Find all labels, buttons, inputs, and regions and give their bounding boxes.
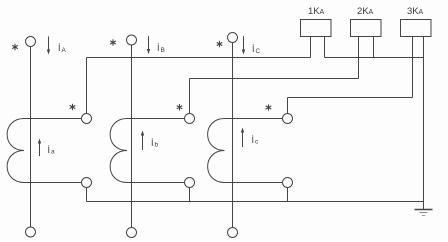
ammeter 1KA bbox=[301, 20, 332, 37]
svg-text:1K: 1K bbox=[308, 6, 320, 17]
label Ia bbox=[48, 145, 56, 156]
CT A secondary top terminal bbox=[82, 114, 92, 124]
CT B primary bottom terminal bbox=[127, 228, 137, 238]
wire: phase A primary conductor bbox=[30, 47, 32, 228]
wire: bus from CT C to 3KA bbox=[288, 97, 413, 99]
CT C secondary bottom terminal bbox=[283, 178, 293, 188]
svg-text:B: B bbox=[161, 47, 165, 54]
svg-text:3K: 3K bbox=[407, 6, 419, 17]
wire: CT C secondary top terminal riser bbox=[287, 98, 289, 114]
label IB bbox=[157, 43, 165, 54]
svg-text:b: b bbox=[155, 142, 159, 149]
wire: common return bus bbox=[325, 57, 424, 59]
CT C primary bottom terminal bbox=[228, 228, 238, 238]
CT B secondary top terminal bbox=[185, 114, 195, 124]
svg-text:İ: İ bbox=[252, 135, 255, 145]
CT C secondary winding bbox=[208, 119, 283, 183]
current arrow Ic bbox=[241, 128, 244, 148]
label 2KA bbox=[357, 6, 374, 17]
node: ground junction bbox=[423, 202, 425, 210]
polarity mark CT B secondary bbox=[177, 104, 183, 110]
wire: CT C secondary bottom drop bbox=[287, 188, 289, 202]
wire: 2KA right lead down to common bus bbox=[373, 37, 375, 58]
svg-text:a: a bbox=[51, 149, 55, 156]
ammeter 3KA bbox=[401, 20, 432, 37]
CT A secondary winding bbox=[7, 119, 81, 183]
polarity mark CT C secondary bbox=[266, 104, 272, 110]
polarity mark CT A primary bbox=[12, 44, 18, 50]
svg-text:İ: İ bbox=[58, 43, 61, 53]
CT B secondary winding bbox=[110, 119, 184, 183]
label IA bbox=[58, 43, 67, 54]
svg-text:İ: İ bbox=[252, 44, 255, 54]
wire: CT A secondary bottom drop bbox=[86, 188, 88, 202]
CT B secondary bottom terminal bbox=[185, 178, 195, 188]
svg-text:A: A bbox=[369, 9, 374, 16]
wire: phase B primary conductor bbox=[131, 45, 133, 228]
current arrow Ia bbox=[38, 139, 41, 157]
label 3KA bbox=[407, 6, 424, 17]
wire: CT B secondary top terminal riser bbox=[189, 79, 191, 114]
CT C primary top terminal bbox=[228, 33, 238, 43]
wire: 3KA right lead / common return down to ground node bbox=[423, 37, 425, 202]
CT B primary top terminal bbox=[127, 35, 137, 45]
svg-text:İ: İ bbox=[151, 138, 154, 148]
svg-text:C: C bbox=[256, 48, 261, 55]
polarity mark CT C primary bbox=[217, 41, 223, 47]
CT A primary top terminal bbox=[26, 37, 36, 47]
svg-text:İ: İ bbox=[157, 43, 160, 53]
CT C secondary top terminal bbox=[283, 114, 293, 124]
ground bbox=[415, 210, 433, 216]
svg-text:A: A bbox=[419, 9, 424, 16]
current arrow IB bbox=[147, 36, 150, 54]
CT A primary bottom terminal bbox=[26, 227, 36, 237]
wire: CT A secondary top terminal riser bbox=[86, 58, 88, 114]
wire: bus from CT A to 1KA bbox=[87, 57, 311, 59]
label Ic bbox=[252, 135, 260, 146]
wire: bottom neutral bus bbox=[87, 201, 424, 203]
label Ib bbox=[151, 138, 159, 149]
wire: 1KA left lead down bbox=[310, 37, 312, 58]
polarity mark CT A secondary bbox=[70, 104, 76, 110]
current arrow IA bbox=[47, 37, 50, 55]
svg-text:A: A bbox=[320, 9, 325, 16]
wire: bus from CT B to 2KA bbox=[190, 78, 359, 80]
current arrow IC bbox=[242, 36, 245, 55]
svg-text:2K: 2K bbox=[357, 6, 369, 17]
current arrow Ib bbox=[141, 131, 144, 151]
CT A secondary bottom terminal bbox=[82, 178, 92, 188]
label IC bbox=[252, 44, 261, 55]
wire: CT B secondary bottom drop bbox=[189, 188, 191, 202]
polarity mark CT B primary bbox=[110, 39, 116, 45]
wire: 2KA left lead down bbox=[358, 37, 360, 79]
svg-text:A: A bbox=[62, 47, 67, 54]
ammeter 2KA bbox=[351, 20, 382, 37]
label 1KA bbox=[308, 6, 325, 17]
wire: 3KA left lead down bbox=[412, 37, 414, 98]
wire: 1KA right lead down to common bus bbox=[324, 37, 326, 58]
wire: phase C primary conductor bbox=[232, 43, 234, 228]
svg-text:İ: İ bbox=[48, 145, 51, 155]
